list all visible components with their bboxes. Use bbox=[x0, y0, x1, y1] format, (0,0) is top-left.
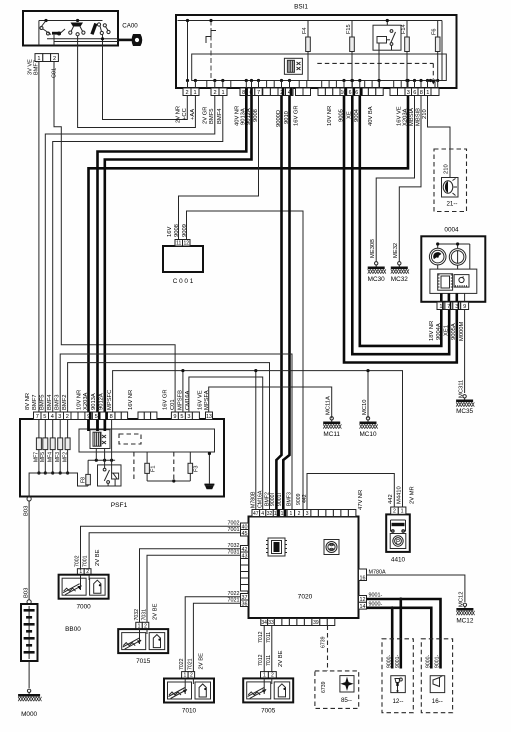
svg-text:7021: 7021 bbox=[228, 597, 240, 603]
svg-text:C01: C01 bbox=[170, 399, 176, 410]
cluster 0004 pin cells 1-7-3-9 bbox=[437, 302, 469, 310]
svg-text:85--: 85-- bbox=[341, 697, 352, 704]
svg-text:7031: 7031 bbox=[141, 609, 147, 621]
svg-text:10V NR: 10V NR bbox=[327, 106, 333, 126]
svg-text:7022: 7022 bbox=[228, 591, 240, 597]
svg-text:7022: 7022 bbox=[179, 658, 185, 670]
wire +AA bbox=[78, 46, 196, 128]
svg-text:10V NR: 10V NR bbox=[77, 390, 83, 410]
svg-text:MC10: MC10 bbox=[359, 431, 376, 438]
labels 10V NR 9005 XE 9004 40V BA bbox=[327, 106, 374, 126]
wire 9013A BSI to PSF1 bbox=[98, 96, 247, 432]
svg-text:XE1: XE1 bbox=[443, 325, 449, 336]
svg-text:9009: 9009 bbox=[182, 224, 188, 237]
svg-text:40V NR: 40V NR bbox=[235, 106, 241, 126]
ground MC12 bbox=[456, 603, 474, 624]
svg-text:9012A: 9012A bbox=[99, 393, 105, 410]
svg-text:8: 8 bbox=[110, 414, 113, 420]
svg-text:16--: 16-- bbox=[432, 698, 443, 705]
labels 8V NR BMF7 BMF5 BMF4 BMF3 BMF2 bbox=[25, 393, 68, 410]
sensor symbol in 7020 bbox=[324, 540, 339, 555]
svg-text:7032: 7032 bbox=[228, 543, 240, 549]
wire MBSIA BSI to ground MC30 bbox=[376, 96, 414, 263]
engine ECU 7020 bbox=[249, 517, 359, 619]
PSF1 diagnostic block bbox=[90, 430, 110, 449]
wire BMF5 BSI to PSF1 pin5 bbox=[45, 96, 215, 413]
svg-text:9008: 9008 bbox=[253, 109, 259, 122]
svg-text:8V NR: 8V NR bbox=[25, 393, 31, 410]
svg-text:9000I: 9000I bbox=[270, 493, 276, 506]
svg-text:P: P bbox=[396, 539, 400, 545]
svg-text:2V BE: 2V BE bbox=[278, 650, 284, 667]
wire 7011 7020 pin33 to 7005 bbox=[266, 626, 272, 672]
ground M000 bbox=[18, 689, 41, 718]
svg-text:12--: 12-- bbox=[392, 698, 403, 705]
fuse F15 bbox=[346, 21, 354, 81]
PSF1 pin cells 9-5-3 bbox=[171, 412, 192, 420]
svg-text:40V BA: 40V BA bbox=[368, 106, 374, 126]
svg-text:2V BE: 2V BE bbox=[199, 653, 205, 670]
labels 9000D 9010 16V GR bbox=[276, 105, 300, 127]
svg-text:2V MR: 2V MR bbox=[410, 486, 416, 504]
svg-text:2: 2 bbox=[298, 511, 301, 517]
wire MBSIB BSI to ground MC32 bbox=[399, 96, 421, 263]
7010 pin cells 1-2 bbox=[182, 672, 195, 679]
svg-text:BB00: BB00 bbox=[65, 626, 81, 633]
wire 7031 7020 pin43 to 7015 bbox=[147, 549, 241, 622]
wire battery to ground M000 bbox=[28, 661, 30, 688]
svg-text:7002: 7002 bbox=[75, 555, 81, 567]
connector CA00 pins 1-2 bbox=[35, 54, 58, 62]
svg-text:F4: F4 bbox=[302, 27, 308, 34]
svg-text:9000D: 9000D bbox=[276, 110, 282, 127]
svg-text:9001I: 9001I bbox=[277, 493, 283, 506]
wire 7001 7020 pin45 to 7000 bbox=[89, 527, 240, 569]
svg-text:6: 6 bbox=[355, 90, 358, 96]
pre-heater unit 7015 bbox=[118, 629, 168, 665]
svg-text:12: 12 bbox=[183, 240, 189, 246]
wire 9012A BSI to PSF1 bbox=[105, 96, 252, 432]
svg-text:1: 1 bbox=[439, 304, 442, 310]
svg-text:7010: 7010 bbox=[182, 708, 197, 715]
svg-text:39: 39 bbox=[313, 620, 319, 626]
svg-text:5: 5 bbox=[43, 414, 46, 420]
wire 9009 C001 pin12 to 7020 pin2 bbox=[187, 211, 304, 510]
wire 7032 7020 pin42 to 7015 bbox=[140, 543, 241, 622]
svg-text:BMF2: BMF2 bbox=[62, 395, 68, 410]
svg-text:MPSFB: MPSFB bbox=[178, 390, 184, 410]
svg-text:4: 4 bbox=[51, 414, 54, 420]
BSI1 control unit bbox=[176, 4, 457, 96]
dashed link in BSI1 bbox=[317, 63, 436, 84]
svg-text:MC10: MC10 bbox=[362, 400, 368, 415]
pre-heater unit 7005 bbox=[243, 678, 293, 714]
svg-text:7000: 7000 bbox=[76, 604, 91, 611]
svg-text:X203A: X203A bbox=[402, 108, 408, 126]
wire BMF2 7020 pin32 to PSF1 pin2 bbox=[68, 363, 270, 510]
svg-text:2: 2 bbox=[393, 509, 396, 515]
PSF1 connector rail band bbox=[79, 429, 215, 452]
svg-text:4: 4 bbox=[261, 511, 264, 517]
pre-heater unit 7010 bbox=[164, 679, 214, 715]
battery BB00 bbox=[21, 604, 81, 661]
svg-text:1: 1 bbox=[426, 90, 429, 96]
PSF1 pin cells 7-5-4-3-2 bbox=[34, 412, 72, 420]
svg-text:210: 210 bbox=[422, 109, 428, 119]
svg-text:9008: 9008 bbox=[174, 224, 180, 237]
IC symbol in 7020 bbox=[266, 538, 287, 556]
svg-text:7: 7 bbox=[257, 90, 260, 96]
4410 pin cells 2-1 bbox=[391, 507, 406, 515]
wire CM16A 7020 pin4 to PSF1 bbox=[189, 377, 263, 510]
wire 7012 7020 pin34 to 7005 bbox=[258, 626, 264, 672]
battery cells bbox=[24, 606, 35, 659]
svg-text:+AA: +AA bbox=[190, 109, 196, 120]
svg-text:4410: 4410 bbox=[391, 557, 406, 564]
pre-heater unit 7000 bbox=[59, 575, 109, 611]
wire BMF3 7020 pin1 to PSF1 pin3 bbox=[60, 354, 292, 510]
ground MC30 bbox=[368, 262, 386, 283]
fuse F1 bbox=[145, 452, 157, 481]
svg-text:18V NR: 18V NR bbox=[429, 321, 435, 341]
svg-text:7032: 7032 bbox=[134, 609, 140, 621]
svg-text:7031: 7031 bbox=[228, 549, 240, 555]
PSF1 F1-F3 link bbox=[134, 452, 190, 483]
svg-text:6: 6 bbox=[413, 90, 416, 96]
labels 7022 7021 2V BE at 7010 bbox=[179, 653, 205, 670]
svg-text:9005A: 9005A bbox=[451, 323, 457, 340]
wire C01 CA00 pin2 to PSF1 pin9 bbox=[54, 62, 175, 413]
svg-text:BSI1: BSI1 bbox=[294, 4, 308, 11]
svg-text:3: 3 bbox=[306, 511, 309, 517]
wire 442 7020 pin3 to 4410 bbox=[307, 474, 394, 510]
wire 9008 BSI to C001 pin 11 bbox=[179, 96, 259, 241]
PSF1 internal relay bbox=[98, 465, 122, 486]
PSF1 empty cell 3 bbox=[192, 412, 199, 420]
svg-text:9013A: 9013A bbox=[91, 393, 97, 410]
terminal B03 on PSF1 bbox=[24, 497, 32, 516]
svg-text:9001-: 9001- bbox=[395, 654, 401, 668]
svg-text:16: 16 bbox=[360, 575, 366, 581]
label 3V VE BMF7 bbox=[28, 59, 40, 75]
PSF1 internal bus to B03 bbox=[29, 473, 88, 496]
dashed unit 12 injection bbox=[382, 639, 413, 713]
labels 18V NR 9004A XE1 9005A M000M bbox=[429, 321, 465, 341]
svg-text:7021: 7021 bbox=[188, 658, 194, 670]
svg-text:9000-: 9000- bbox=[387, 654, 393, 668]
svg-text:6739: 6739 bbox=[321, 681, 327, 693]
svg-text:CM16A: CM16A bbox=[185, 391, 191, 410]
svg-text:M000M: M000M bbox=[459, 321, 465, 341]
wire 9000- 7020 pin14 bbox=[367, 602, 432, 669]
labels 16V GR C01 MPSFB CM16A bbox=[163, 389, 192, 410]
svg-text:16V NR: 16V NR bbox=[128, 390, 134, 410]
labels 16V VE MPSFA bbox=[198, 390, 211, 410]
svg-text:MF5: MF5 bbox=[40, 452, 46, 462]
svg-text:MC11A: MC11A bbox=[326, 396, 332, 415]
svg-text:MBSIB: MBSIB bbox=[415, 108, 421, 126]
svg-text:16V: 16V bbox=[167, 227, 173, 237]
BSI1 connector cells group D pins 2-4 bbox=[278, 88, 293, 96]
svg-text:14: 14 bbox=[360, 604, 366, 610]
BSI1 connector cells group A pins 2-1 bbox=[183, 88, 199, 96]
svg-text:32: 32 bbox=[267, 511, 273, 517]
svg-text:MF3: MF3 bbox=[55, 452, 61, 462]
svg-text:+CC: +CC bbox=[182, 108, 188, 120]
svg-text:BMF5: BMF5 bbox=[209, 109, 215, 124]
svg-text:XE: XE bbox=[347, 111, 353, 119]
svg-text:7: 7 bbox=[36, 414, 39, 420]
ground MC32 bbox=[391, 262, 409, 283]
wire XE BSI to cluster XE1 bbox=[352, 96, 449, 355]
labels 16V 9008 9009 bbox=[167, 224, 188, 237]
svg-text:MC12: MC12 bbox=[456, 618, 473, 625]
svg-text:9001-: 9001- bbox=[369, 593, 383, 599]
svg-text:MC35: MC35 bbox=[456, 408, 473, 415]
svg-text:MF7: MF7 bbox=[34, 452, 40, 462]
PSF1 empty cells bbox=[71, 412, 85, 420]
svg-text:ME32: ME32 bbox=[393, 243, 399, 258]
svg-text:0004: 0004 bbox=[444, 227, 459, 234]
svg-text:C 0 0 1: C 0 0 1 bbox=[173, 278, 194, 285]
svg-text:7011: 7011 bbox=[266, 655, 272, 666]
wire 210 BSI to lamp unit bbox=[428, 96, 451, 178]
svg-text:7012: 7012 bbox=[258, 654, 264, 666]
7015 pin cells 1-2 bbox=[136, 622, 149, 629]
svg-text:47V NR: 47V NR bbox=[358, 490, 364, 510]
labels 442 M4410 2V MR bbox=[388, 486, 416, 504]
dashed unit 21 with lamp bbox=[434, 149, 467, 212]
svg-text:7002: 7002 bbox=[228, 520, 240, 526]
svg-text:F1: F1 bbox=[151, 465, 157, 472]
svg-text:6: 6 bbox=[349, 90, 352, 96]
svg-text:2V BE: 2V BE bbox=[95, 549, 101, 566]
svg-text:16V GR: 16V GR bbox=[294, 105, 300, 126]
ground MC10 bbox=[359, 417, 377, 438]
svg-text:F6: F6 bbox=[432, 28, 438, 35]
svg-text:3: 3 bbox=[187, 414, 190, 420]
svg-text:5: 5 bbox=[95, 414, 98, 420]
svg-text:MPSFA: MPSFA bbox=[204, 390, 210, 410]
7020 left pin cells bbox=[241, 523, 249, 607]
labels 10V NR X203A 9013A 9012A MPSFC bbox=[77, 390, 114, 410]
wire M780 PSF1 pin8 MPSFB M780B MC10 M4410 bbox=[113, 369, 403, 510]
labels 2V GR BMF5 BMF4 bbox=[203, 107, 224, 124]
fuse F8 bbox=[81, 460, 91, 486]
svg-text:442: 442 bbox=[388, 494, 394, 504]
fuse F4 bbox=[302, 21, 310, 81]
svg-text:9004: 9004 bbox=[354, 108, 360, 122]
svg-text:16V VE: 16V VE bbox=[198, 390, 204, 410]
BSI1 connector empty cells bbox=[263, 88, 278, 96]
svg-text:B03: B03 bbox=[24, 588, 30, 598]
svg-text:MF2: MF2 bbox=[62, 452, 68, 462]
svg-text:6739: 6739 bbox=[321, 636, 327, 648]
svg-text:F3: F3 bbox=[194, 465, 200, 472]
wire 9005 BSI to cluster 9005A bbox=[344, 96, 457, 363]
svg-text:ME30B: ME30B bbox=[370, 239, 376, 258]
7020 bottom pin cells bbox=[261, 619, 335, 626]
diagnostic block in BSI1 bbox=[284, 58, 302, 74]
svg-text:2: 2 bbox=[213, 90, 216, 96]
svg-text:F15: F15 bbox=[346, 24, 352, 34]
svg-text:1: 1 bbox=[221, 90, 224, 96]
svg-text:9000-: 9000- bbox=[369, 602, 383, 608]
svg-text:F8: F8 bbox=[81, 477, 87, 483]
svg-text:MC30: MC30 bbox=[368, 276, 385, 283]
svg-text:7020: 7020 bbox=[298, 594, 313, 601]
7020 right pin cells bbox=[359, 569, 367, 610]
handbrake switch 4410 bbox=[386, 514, 410, 563]
svg-text:MBSIA: MBSIA bbox=[409, 108, 415, 126]
fuse F3 bbox=[188, 452, 200, 481]
svg-text:9: 9 bbox=[173, 414, 176, 420]
wire overdraw through connector cells bbox=[89, 88, 459, 517]
svg-text:7011: 7011 bbox=[266, 632, 272, 643]
labels M780B CM16A BMF2 9000I 9001I BMF3 9009 442 bbox=[251, 490, 308, 508]
ground MC11 bbox=[323, 417, 341, 438]
svg-text:F14: F14 bbox=[401, 24, 407, 34]
BSI1 connector empty cells 3 bbox=[361, 88, 405, 96]
BSI1 pin junction dots bbox=[186, 79, 439, 88]
connector unit C001 bbox=[163, 240, 203, 286]
wire X203A BSI to PSF1 bbox=[89, 96, 409, 432]
ignition switch CA00 bbox=[23, 11, 118, 46]
svg-text:9001-: 9001- bbox=[434, 654, 440, 668]
wire BMF4 BSI to PSF1 pin4 bbox=[53, 96, 223, 413]
svg-text:5: 5 bbox=[180, 414, 183, 420]
svg-text:BMF3: BMF3 bbox=[55, 395, 61, 410]
wire M780A 7020 pin16 to ground MC12 bbox=[367, 570, 465, 603]
svg-text:11: 11 bbox=[176, 240, 181, 246]
svg-text:CM16A: CM16A bbox=[258, 490, 264, 508]
svg-text:2V NR: 2V NR bbox=[176, 106, 182, 123]
svg-text:2V GR: 2V GR bbox=[203, 107, 209, 124]
7020 top pin cells bbox=[252, 510, 356, 517]
svg-text:9010: 9010 bbox=[284, 111, 290, 124]
wire 6739 7020 pin39 to unit 85 bbox=[321, 626, 328, 671]
svg-text:45: 45 bbox=[242, 531, 248, 537]
labels 2V NR +CC +AA bbox=[176, 106, 196, 123]
svg-text:16V GR: 16V GR bbox=[163, 389, 169, 410]
labels ME30B ME32 bbox=[370, 239, 399, 258]
svg-text:M000: M000 bbox=[21, 711, 37, 718]
wire 9000D BSI to 7020 pin11 bbox=[276, 96, 281, 510]
svg-text:8: 8 bbox=[242, 90, 245, 96]
svg-text:3: 3 bbox=[407, 90, 410, 96]
wire BMF7 CA00 pin1 to PSF1 pin7 bbox=[38, 62, 40, 413]
svg-text:M780B: M780B bbox=[251, 491, 257, 508]
wire 9001- 7020 pin12 bbox=[367, 593, 441, 669]
svg-text:MC32: MC32 bbox=[391, 276, 408, 283]
svg-text:9000-: 9000- bbox=[426, 654, 432, 668]
7005 pin cells 1-2 bbox=[261, 672, 277, 679]
svg-text:9: 9 bbox=[463, 304, 466, 310]
labels 16V VE X203A MBSIA MBSIB 210 bbox=[397, 106, 428, 126]
svg-text:M4410: M4410 bbox=[397, 486, 403, 504]
svg-text:210: 210 bbox=[444, 164, 450, 174]
svg-text:BMF4: BMF4 bbox=[47, 394, 53, 410]
dashed unit 85 with fan bbox=[315, 671, 359, 709]
svg-text:33: 33 bbox=[268, 620, 274, 626]
svg-text:X203A: X203A bbox=[83, 392, 89, 410]
key symbol bbox=[118, 34, 142, 46]
svg-text:47: 47 bbox=[253, 511, 259, 517]
instrument cluster 0004 bbox=[421, 227, 485, 303]
svg-text:9005: 9005 bbox=[338, 109, 344, 122]
labels 7002 7001 2V BE at 7000 bbox=[75, 549, 102, 567]
svg-text:M780A: M780A bbox=[369, 570, 386, 576]
svg-text:BMF5: BMF5 bbox=[40, 395, 46, 410]
svg-text:7001: 7001 bbox=[228, 527, 240, 533]
wire +CC bbox=[103, 46, 188, 120]
svg-text:7012: 7012 bbox=[258, 631, 264, 643]
svg-text:34: 34 bbox=[261, 620, 267, 626]
svg-text:1: 1 bbox=[289, 511, 292, 517]
svg-text:13: 13 bbox=[206, 414, 212, 420]
dashed unit 16 horn bbox=[421, 639, 452, 713]
fuse F14 bbox=[401, 21, 409, 81]
ground MC35 bbox=[456, 395, 474, 415]
svg-text:2V BE: 2V BE bbox=[153, 603, 159, 620]
fuse F6 bbox=[432, 21, 440, 81]
svg-text:2: 2 bbox=[66, 414, 69, 420]
BSI1 connector cells group F pins 3-6-8-1 bbox=[405, 88, 439, 96]
wire 9004 BSI to cluster 9004A bbox=[360, 96, 442, 346]
PSF1 pin cells 9-5-x-8 bbox=[85, 412, 115, 420]
PSF1 internal ground bbox=[204, 452, 214, 489]
7000 pin cells 1-2 bbox=[77, 569, 91, 575]
svg-text:3: 3 bbox=[58, 414, 61, 420]
BSI1 connector cells group B pins 2-1 bbox=[211, 88, 227, 96]
PSF1 fuse box bbox=[20, 419, 224, 509]
wire 7021 7020 pin36 to 7010 bbox=[193, 597, 240, 671]
PSF1 empty cells 2 bbox=[115, 412, 157, 420]
PSF1 internal fuses MF7 MF5 MF4 MF3 MF2 bbox=[34, 420, 70, 475]
svg-text:36: 36 bbox=[242, 601, 248, 607]
svg-text:1: 1 bbox=[401, 509, 404, 515]
BSI1 connector cells group C pins 8-6-7 bbox=[240, 88, 262, 96]
PSF1 relay feed lines bbox=[88, 420, 115, 473]
wire MPSFA PSF1 pin13 to ground MC11 bbox=[209, 387, 332, 418]
wire B03 to battery bbox=[24, 501, 32, 604]
svg-text:1: 1 bbox=[193, 90, 196, 96]
svg-text:CA00: CA00 bbox=[122, 23, 138, 30]
svg-text:8: 8 bbox=[420, 90, 423, 96]
wire 7022 7020 pin37 to 7010 bbox=[185, 591, 240, 672]
svg-text:2: 2 bbox=[185, 90, 188, 96]
svg-text:BMF3: BMF3 bbox=[286, 492, 292, 506]
svg-text:7005: 7005 bbox=[261, 707, 276, 714]
svg-text:MC11: MC11 bbox=[323, 431, 340, 438]
svg-text:BMF4: BMF4 bbox=[217, 108, 223, 124]
svg-text:BMF7: BMF7 bbox=[32, 395, 38, 410]
wire MC311 cluster to ground MC35 bbox=[459, 310, 465, 399]
svg-text:21--: 21-- bbox=[446, 201, 457, 208]
labels 40V NR 9013A 9012A 9008 bbox=[235, 106, 260, 126]
relay in BSI1 bbox=[373, 19, 401, 81]
svg-text:7015: 7015 bbox=[136, 658, 151, 665]
svg-text:7001: 7001 bbox=[83, 555, 89, 567]
wire 9010 BSI to 7020 pin15 bbox=[283, 96, 289, 510]
BSI1 connector empty cells 2 bbox=[296, 88, 341, 96]
svg-text:9004A: 9004A bbox=[436, 323, 442, 340]
svg-text:2: 2 bbox=[53, 56, 56, 62]
svg-text:MPSFC: MPSFC bbox=[107, 390, 113, 410]
svg-text:9012A: 9012A bbox=[246, 108, 252, 125]
PSF1 pin cell 13 bbox=[206, 412, 213, 420]
BSI1 connector cells group E pins 10-6-6 bbox=[340, 88, 360, 96]
